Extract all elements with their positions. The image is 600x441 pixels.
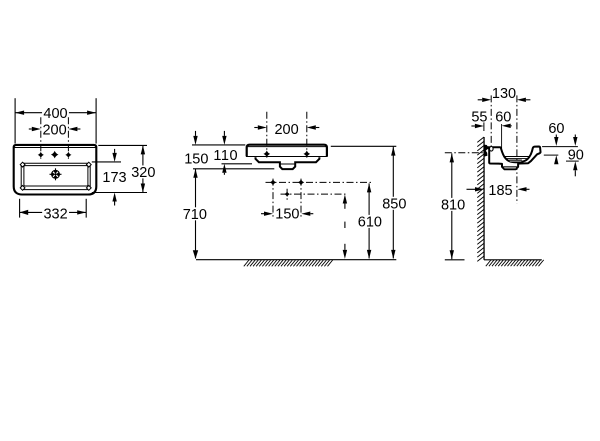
svg-text:850: 850 bbox=[382, 196, 406, 212]
svg-text:200: 200 bbox=[43, 123, 67, 139]
svg-text:60: 60 bbox=[548, 121, 564, 137]
svg-text:710: 710 bbox=[183, 207, 207, 223]
svg-text:320: 320 bbox=[131, 165, 155, 181]
svg-text:810: 810 bbox=[441, 197, 465, 213]
svg-text:110: 110 bbox=[213, 148, 237, 164]
svg-text:200: 200 bbox=[275, 122, 299, 138]
svg-text:60: 60 bbox=[495, 110, 511, 126]
svg-text:332: 332 bbox=[44, 206, 68, 222]
svg-text:610: 610 bbox=[358, 214, 382, 230]
svg-text:90: 90 bbox=[568, 147, 584, 163]
svg-text:400: 400 bbox=[43, 106, 67, 122]
svg-text:150: 150 bbox=[275, 207, 299, 223]
svg-text:185: 185 bbox=[488, 183, 512, 199]
svg-text:173: 173 bbox=[102, 170, 126, 186]
svg-text:150: 150 bbox=[184, 151, 208, 167]
svg-text:130: 130 bbox=[492, 86, 516, 102]
svg-text:55: 55 bbox=[471, 109, 487, 125]
